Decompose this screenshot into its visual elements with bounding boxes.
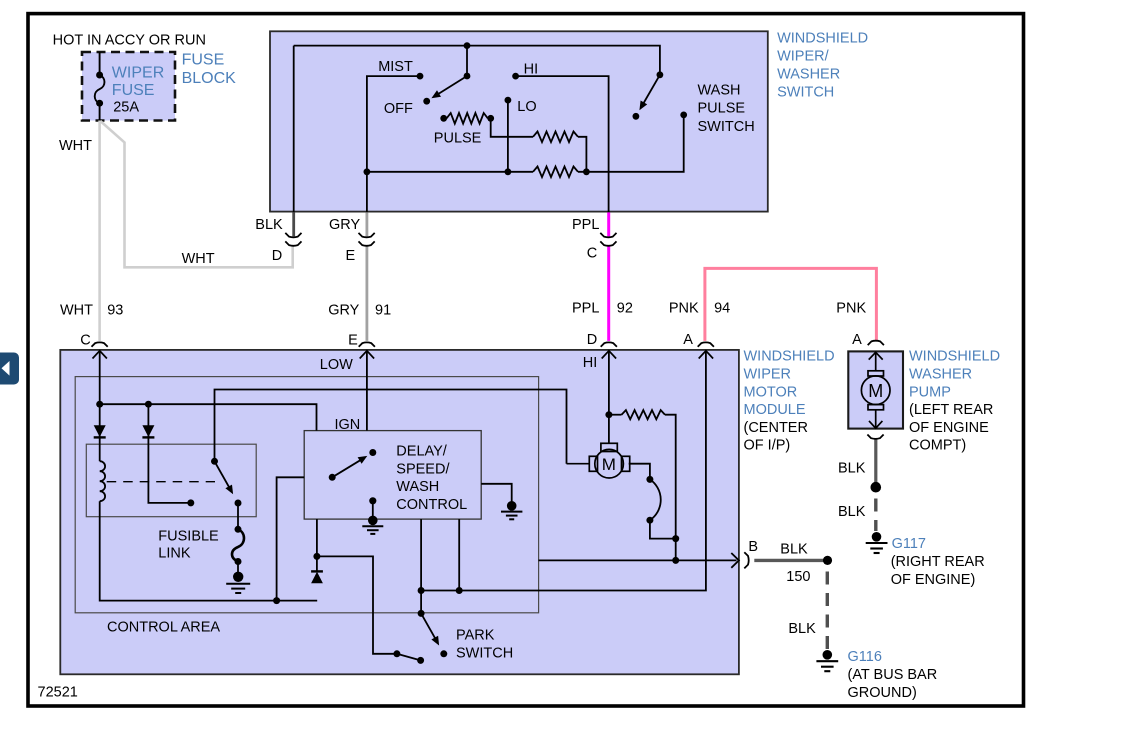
svg-text:HI: HI xyxy=(583,355,598,371)
svg-text:MOTOR: MOTOR xyxy=(744,384,798,400)
arrow A input xyxy=(699,351,713,359)
svg-text:WHT: WHT xyxy=(59,138,92,154)
wire resistor leads xyxy=(609,414,622,416)
node resistor bottom junction xyxy=(583,168,590,175)
svg-text:PNK: PNK xyxy=(836,300,866,316)
wire BLK dashed to G117 xyxy=(874,499,877,532)
svg-text:DELAY/: DELAY/ xyxy=(396,444,447,460)
ground G117 xyxy=(872,532,882,542)
arrow pump down xyxy=(869,421,882,428)
wire coil to ground bus xyxy=(100,501,318,600)
svg-text:91: 91 xyxy=(375,303,391,319)
node wash arm end xyxy=(633,113,640,120)
wire GRY switch to connector E xyxy=(365,212,368,236)
wire arc bottom to junction xyxy=(650,520,676,538)
svg-text:72521: 72521 xyxy=(38,684,78,700)
node park movable end xyxy=(417,657,424,664)
delay/speed/wash control inner box xyxy=(304,431,481,519)
node wht junction 1 xyxy=(96,401,103,408)
svg-text:93: 93 xyxy=(107,303,123,319)
svg-text:BLK: BLK xyxy=(255,217,283,233)
resistor lower xyxy=(533,167,578,178)
relay coil xyxy=(100,461,105,501)
wire BLK dashed to G116 xyxy=(826,572,829,650)
svg-text:G116: G116 xyxy=(848,649,882,665)
svg-text:SPEED/: SPEED/ xyxy=(396,461,450,477)
svg-text:GROUND): GROUND) xyxy=(848,685,917,701)
node pulse resistor right xyxy=(487,115,494,122)
node motor resistor left xyxy=(605,411,612,418)
wire GRY connector E to module E xyxy=(365,246,368,341)
svg-text:E: E xyxy=(348,333,358,349)
switch arm wash pulse xyxy=(642,75,660,106)
node HI contact xyxy=(512,73,519,80)
wire BLK 150 stub from module B xyxy=(754,559,827,562)
relay dashed actuator line xyxy=(107,481,215,483)
wire PPL connector C to module D xyxy=(607,246,610,341)
node control contact xyxy=(369,449,376,456)
resistor upper xyxy=(533,132,578,143)
node gry bottom junction xyxy=(364,168,371,175)
wire BLK washer pump B down xyxy=(874,440,877,488)
wire control box left pin to ground bus xyxy=(277,477,305,600)
svg-text:BLK: BLK xyxy=(780,542,808,558)
node LO contact xyxy=(505,97,512,104)
arrow C input xyxy=(93,351,107,359)
wire PPL switch to connector C xyxy=(607,212,610,236)
wire junction down to B line xyxy=(675,539,677,561)
svg-text:BLK: BLK xyxy=(838,460,866,476)
arrow E input xyxy=(360,351,374,359)
svg-text:94: 94 xyxy=(714,300,730,316)
node lo bottom junction xyxy=(505,168,512,175)
svg-text:92: 92 xyxy=(617,300,633,316)
node park left contact xyxy=(393,650,400,657)
wire control box right pin to ground 2 xyxy=(481,484,512,502)
wire C input down xyxy=(99,352,101,405)
svg-text:WIPER/: WIPER/ xyxy=(777,48,830,64)
wire mist/off pivot stem xyxy=(466,46,468,76)
svg-text:PARK: PARK xyxy=(456,627,495,643)
park arc contact (motor) xyxy=(650,479,661,520)
svg-text:MODULE: MODULE xyxy=(744,402,806,418)
ground control box internal xyxy=(369,497,376,504)
svg-text:(AT BUS BAR: (AT BUS BAR xyxy=(848,667,938,683)
ground right of control box xyxy=(507,501,517,511)
fuse block FUSE BLOCK (dashed box) xyxy=(82,52,175,121)
wire bottom bus right xyxy=(578,115,684,172)
svg-text:D: D xyxy=(272,248,282,264)
node arc bottom xyxy=(646,517,653,524)
node MIST contact xyxy=(417,73,424,80)
svg-text:A: A xyxy=(683,332,693,348)
wire LO vertical xyxy=(507,100,509,172)
nav tab xyxy=(0,353,19,385)
svg-text:FUSE: FUSE xyxy=(112,82,155,99)
svg-text:SWITCH: SWITCH xyxy=(456,646,513,662)
relay inner box xyxy=(86,444,256,517)
svg-text:OF ENGINE: OF ENGINE xyxy=(909,420,989,436)
wire motor right brush path xyxy=(629,464,650,480)
nav tab arrow xyxy=(2,361,10,376)
wire WHT fuse to connector C (vertical) xyxy=(98,121,101,341)
connector arcs below switch box (inline connector pairs) xyxy=(92,233,884,569)
svg-text:GRY: GRY xyxy=(328,303,359,319)
svg-text:M: M xyxy=(868,381,883,401)
svg-text:WASHER: WASHER xyxy=(909,367,972,383)
motor M1 wiper xyxy=(567,443,630,478)
svg-text:WHT: WHT xyxy=(60,303,93,319)
fusible link squiggle xyxy=(232,529,244,561)
node wash pivot xyxy=(657,71,664,78)
diode D3 (up) xyxy=(311,572,323,584)
svg-text:LO: LO xyxy=(517,99,536,115)
wire B output line xyxy=(539,559,737,561)
svg-text:WINDSHIELD: WINDSHIELD xyxy=(777,30,868,46)
node mist/off pivot xyxy=(464,73,471,80)
connector D pair xyxy=(285,233,301,237)
node pulse resistor left xyxy=(440,115,447,122)
svg-text:WASH: WASH xyxy=(396,479,439,495)
diode D1 stem xyxy=(99,404,101,461)
connector C module cap xyxy=(92,342,108,346)
svg-text:PPL: PPL xyxy=(572,300,599,316)
fuse WIPER FUSE 25A xyxy=(95,52,105,121)
wire BLK vertical inside switch box xyxy=(293,46,295,212)
windshield washer pump box xyxy=(848,351,903,428)
connector E pair xyxy=(359,233,375,237)
wire top horizontal to IGN pin xyxy=(100,404,317,430)
node relay fixed contact xyxy=(187,499,194,506)
park switch arm xyxy=(421,613,436,640)
node park pivot xyxy=(418,610,425,617)
svg-text:OF ENGINE): OF ENGINE) xyxy=(891,572,976,588)
wire BLK switch to connector D xyxy=(292,212,295,236)
node wash contact xyxy=(680,112,687,119)
svg-text:WINDSHIELD: WINDSHIELD xyxy=(744,349,835,365)
resistor motor shunt xyxy=(622,410,666,419)
svg-text:LOW: LOW xyxy=(320,357,353,373)
wire IGN-pin bottom to diode D3 xyxy=(316,519,318,571)
relay arm xyxy=(215,461,231,489)
switch box internal wiring xyxy=(294,46,684,212)
node OFF contact xyxy=(423,98,430,105)
arrowhead B output xyxy=(731,553,739,568)
svg-text:G117: G117 xyxy=(892,536,926,552)
connector D module cap xyxy=(601,342,617,346)
connector A module cap xyxy=(698,342,714,346)
svg-text:PUMP: PUMP xyxy=(909,384,951,400)
wire HI to PPL exit xyxy=(516,76,609,212)
ground G116 xyxy=(823,650,833,660)
svg-text:HOT IN ACCY OR RUN: HOT IN ACCY OR RUN xyxy=(53,32,206,48)
node control pin2 bottom xyxy=(456,587,463,594)
arrowhead mist/off arm xyxy=(431,90,441,98)
diode D1 (down) xyxy=(94,425,106,437)
svg-text:PPL: PPL xyxy=(572,217,599,233)
node ground bus junction xyxy=(273,597,280,604)
CONTROL AREA inner box xyxy=(75,377,538,613)
node fusible link top xyxy=(235,526,242,533)
wire relay pivot to motor left brush xyxy=(215,390,567,464)
svg-text:WINDSHIELD: WINDSHIELD xyxy=(909,349,1000,365)
connector B module (right-facing) xyxy=(744,552,748,568)
diode D2 stem xyxy=(148,404,190,503)
wire relay arm contact to fusible link xyxy=(237,503,239,529)
svg-text:OF I/P): OF I/P) xyxy=(744,438,791,454)
svg-text:SWITCH: SWITCH xyxy=(777,85,834,101)
node relay pivot xyxy=(211,458,218,465)
wire upper resistor to bottom bus xyxy=(578,137,586,172)
wire control pin to park pivot xyxy=(420,519,422,613)
svg-text:B: B xyxy=(748,539,758,555)
arrowhead park switch arm xyxy=(431,636,439,646)
park movable contact segment xyxy=(397,654,421,661)
node B line junction xyxy=(672,557,679,564)
wire PNK to module A and washer pump A xyxy=(705,268,877,341)
node control pivot xyxy=(329,474,336,481)
washer pump internals xyxy=(861,352,890,428)
input arrows at module top xyxy=(93,351,883,360)
wire park left contact L path xyxy=(317,556,397,653)
svg-text:WHT: WHT xyxy=(182,251,215,267)
resistor PULSE xyxy=(447,113,488,124)
wire WHT branch fuse to connector D xyxy=(100,121,292,267)
connector E module cap xyxy=(359,342,375,346)
svg-text:CONTROL AREA: CONTROL AREA xyxy=(107,619,220,635)
diode D2 (down) xyxy=(142,425,154,437)
svg-text:CONTROL: CONTROL xyxy=(396,497,467,513)
svg-text:HI: HI xyxy=(524,61,539,77)
svg-text:(RIGHT REAR: (RIGHT REAR xyxy=(891,554,985,570)
svg-text:BLK: BLK xyxy=(838,504,866,520)
wire E input to control box IGN xyxy=(366,352,368,431)
svg-text:WASH: WASH xyxy=(698,82,741,98)
node ign pin junction xyxy=(313,553,320,560)
svg-text:M: M xyxy=(602,455,616,474)
svg-text:FUSE: FUSE xyxy=(182,52,225,69)
svg-text:150: 150 xyxy=(786,569,810,585)
node B line to G116 junction xyxy=(823,556,832,565)
svg-text:PULSE: PULSE xyxy=(434,130,482,146)
node resistor bottom junction xyxy=(672,535,679,542)
ground fusible link xyxy=(233,572,243,582)
node pump B wire end xyxy=(871,482,882,493)
node arc top xyxy=(646,476,653,483)
wire D/HI input down to motor top xyxy=(608,352,610,444)
svg-text:E: E xyxy=(346,248,356,264)
wire pulse resistor to upper resistor xyxy=(488,118,533,137)
connector B pump cup xyxy=(867,435,883,439)
svg-text:BLOCK: BLOCK xyxy=(182,70,237,87)
svg-text:WASHER: WASHER xyxy=(777,67,840,83)
svg-text:PULSE: PULSE xyxy=(698,101,746,117)
svg-text:A: A xyxy=(852,332,862,348)
switch arm mist/off xyxy=(436,76,467,95)
connector C pair xyxy=(600,233,616,237)
svg-text:MIST: MIST xyxy=(378,59,413,75)
svg-text:GRY: GRY xyxy=(329,217,360,233)
control switch arm xyxy=(332,459,362,478)
svg-text:(LEFT REAR: (LEFT REAR xyxy=(909,402,993,418)
node park pivot top xyxy=(418,587,425,594)
wire control ground stem xyxy=(372,501,374,520)
svg-text:D: D xyxy=(587,332,597,348)
wire bottom bus left xyxy=(367,171,533,173)
windshield wiper/washer switch box xyxy=(270,31,768,211)
windshield wiper motor module box xyxy=(60,350,739,674)
wire fusible link to ground xyxy=(237,562,239,574)
arrowhead wash arm xyxy=(639,101,647,111)
arrow D input xyxy=(602,351,616,359)
svg-text:PNK: PNK xyxy=(669,300,699,316)
svg-text:WIPER: WIPER xyxy=(744,367,792,383)
svg-text:LINK: LINK xyxy=(158,546,191,562)
svg-text:COMPT): COMPT) xyxy=(909,438,966,454)
module internal wiring xyxy=(100,352,737,661)
wire MIST branch xyxy=(367,76,420,212)
node fusible link bottom xyxy=(235,558,242,565)
svg-text:WIPER: WIPER xyxy=(112,65,164,82)
node top bus junction xyxy=(464,42,471,49)
node park fixed contact xyxy=(440,650,447,657)
svg-text:25A: 25A xyxy=(113,100,139,116)
arrow pump A input xyxy=(869,352,883,359)
svg-text:BLK: BLK xyxy=(788,621,816,637)
arrowhead relay arm xyxy=(225,485,233,495)
svg-text:IGN: IGN xyxy=(335,417,361,433)
wire A input down and left to control pins xyxy=(421,352,706,591)
svg-text:FUSIBLE: FUSIBLE xyxy=(158,528,219,544)
node wht junction 2 xyxy=(145,401,152,408)
arrowhead control switch arm xyxy=(358,456,368,464)
svg-text:C: C xyxy=(587,246,597,262)
wire top bus line xyxy=(294,46,660,75)
svg-text:OFF: OFF xyxy=(384,101,413,117)
svg-text:(CENTER: (CENTER xyxy=(744,420,808,436)
svg-text:C: C xyxy=(80,333,90,349)
node relay arm contact xyxy=(235,500,242,507)
wire control pin 2 down xyxy=(458,519,460,590)
connector A pump cap xyxy=(868,341,884,345)
svg-text:SWITCH: SWITCH xyxy=(698,119,755,135)
